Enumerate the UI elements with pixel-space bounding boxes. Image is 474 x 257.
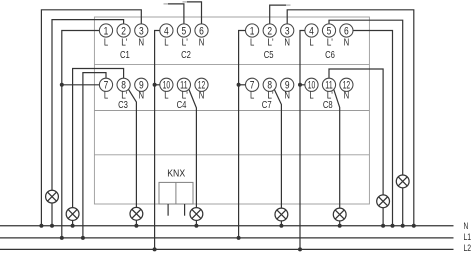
svg-text:N: N xyxy=(344,36,350,48)
lamp E3b (second load of C3) xyxy=(130,207,143,220)
wire terminal 8 output diagonal to lamp E3b xyxy=(128,88,137,208)
wire terminal 8 (L' of C3) to lamp E3a xyxy=(73,69,124,208)
terminal 6 (N of C6) pin 6 xyxy=(340,24,353,38)
wire stub terminal 2 (L' of C5) continuation xyxy=(270,5,286,24)
svg-text:L: L xyxy=(164,36,168,48)
wire lamp E7 to N bus xyxy=(280,221,282,226)
terminal 10 (L of C4) pin 10 xyxy=(160,78,173,91)
junction C5 L wire / C7 L branch xyxy=(237,83,241,87)
junction C2 L wire / C4 L branch xyxy=(153,83,157,87)
wire branch to terminal 10 (L of C8) xyxy=(300,84,305,86)
wire terminal 7 (L of C3) to L1 bus xyxy=(83,73,106,238)
svg-text:L': L' xyxy=(267,36,273,48)
terminal 5 (L' of C6) pin 5 xyxy=(322,24,335,38)
wire L1 bus to terminal 1 (L of C5) xyxy=(239,31,246,238)
lamp E7 (load of C7) xyxy=(275,208,288,221)
svg-text:C3: C3 xyxy=(118,99,128,111)
terminal 11 (L' of C4) pin 11 xyxy=(177,78,190,91)
svg-text:L: L xyxy=(309,36,313,48)
terminal 1 (L of C5) pin 1 xyxy=(246,24,259,38)
wire terminal 11 output diagonal to lamp E4 xyxy=(188,88,196,208)
KNX bus terminal block xyxy=(159,182,193,204)
junction lamp E1 / N bus xyxy=(50,224,54,228)
terminal 2 (L' of C1) pin 2 xyxy=(117,24,130,38)
terminal 12 (N of C8) pin 12 xyxy=(340,78,353,91)
junction C5 N wire / N bus xyxy=(412,224,416,228)
svg-text:L': L' xyxy=(327,36,333,48)
junction lamp E6 / N bus xyxy=(401,224,405,228)
svg-text:L': L' xyxy=(182,36,188,48)
terminal 2 (L' of C5) pin 2 xyxy=(263,24,276,38)
wire N bus to terminal 3 (N of C1) xyxy=(41,10,141,226)
device internal row line 1 xyxy=(94,64,369,66)
terminal 12 (N of C4) pin 12 xyxy=(195,78,208,91)
svg-text:C2: C2 xyxy=(181,49,191,61)
svg-text:L1: L1 xyxy=(464,232,472,242)
wire branch to terminal 10 (L of C4) xyxy=(155,84,160,86)
svg-text:N: N xyxy=(199,36,205,48)
svg-text:N: N xyxy=(199,90,205,102)
N bus wire xyxy=(0,225,454,227)
terminal 7 (L of C3) pin 7 xyxy=(99,78,112,91)
svg-text:C6: C6 xyxy=(325,49,335,61)
lamp E3a (load of C3) xyxy=(66,208,79,221)
svg-text:L: L xyxy=(250,90,254,102)
lamp E4 (load of C4) xyxy=(190,208,203,221)
wire stub terminal 5 (L' of C2) continuation xyxy=(168,4,184,24)
svg-text:L2: L2 xyxy=(464,243,472,253)
KNX bus wire + xyxy=(167,204,169,216)
junction L2 bus / C6 L wire xyxy=(298,247,302,251)
terminal 9 (N of C7) pin 9 xyxy=(281,78,294,91)
svg-text:C7: C7 xyxy=(262,99,272,111)
junction lamp E4 / N bus xyxy=(194,224,198,228)
wire terminal 5 (L' of C6) to lamp E6 xyxy=(329,20,403,175)
wire lamp E4 to N bus xyxy=(195,220,197,225)
svg-text:L: L xyxy=(104,36,108,48)
svg-text:N: N xyxy=(139,90,145,102)
L2 bus wire xyxy=(0,248,454,250)
device internal row line 2 xyxy=(94,110,369,112)
junction lamp E3b / N bus xyxy=(134,224,138,228)
junction L1 bus / C1 L wire xyxy=(60,236,64,240)
junction lamp E8b / N bus xyxy=(381,224,385,228)
junction lamp E8a / N bus xyxy=(338,224,342,228)
terminal 3 (N of C5) pin 3 xyxy=(281,24,294,38)
wire lamp E3a to N bus xyxy=(72,220,74,225)
device outline (8-channel KNX dimmer actuator) xyxy=(94,17,369,204)
wire lamp E8b to N bus xyxy=(382,208,384,226)
junction L1 bus / C5 L wire xyxy=(237,236,241,240)
junction L2 bus / C2 L wire xyxy=(153,247,157,251)
junction lamp E7 / N bus xyxy=(279,224,283,228)
lamp E1 (load of C1) xyxy=(46,190,59,203)
wire L1 bus to terminal 1 (L of C1) xyxy=(62,31,100,238)
svg-text:L': L' xyxy=(121,36,127,48)
wire L2 bus to terminal 4 (L of C6) xyxy=(300,31,305,250)
svg-text:KNX: KNX xyxy=(167,168,185,179)
KNX bus wire - xyxy=(184,204,186,216)
wire lamp E8a to N bus xyxy=(339,221,341,226)
wire terminal 8 output diagonal to lamp E7 xyxy=(274,88,282,208)
wire terminal 11 output diagonal to lamp E8a xyxy=(334,89,340,208)
terminal 8 (L' of C7) pin 8 xyxy=(263,78,276,91)
svg-text:N: N xyxy=(464,221,469,231)
wire terminal 6 (N of C6) to N bus xyxy=(353,31,393,226)
junction lamp E3a / N bus xyxy=(71,224,75,228)
wire terminal 3 (N of C5) to N bus xyxy=(287,10,414,226)
terminal 4 (L of C6) pin 4 xyxy=(305,24,318,38)
svg-text:C4: C4 xyxy=(177,99,187,111)
lamp E8b (second load of C8) xyxy=(377,195,390,208)
junction C3 L wire / L1 bus xyxy=(81,236,85,240)
svg-text:L: L xyxy=(104,90,108,102)
svg-text:L: L xyxy=(164,90,168,102)
svg-text:C8: C8 xyxy=(323,99,333,111)
svg-text:L: L xyxy=(250,36,254,48)
junction C6 L wire / C8 L branch xyxy=(298,83,302,87)
terminal 1 (L of C1) pin 1 xyxy=(99,24,112,38)
terminal 8 (L' of C3) pin 8 xyxy=(117,78,130,91)
wire terminal 11 (L' of C8) to lamp E8b xyxy=(329,69,383,195)
wire lamp E1 to N bus xyxy=(51,203,53,226)
terminal 5 (L' of C2) pin 5 xyxy=(177,24,190,38)
wire branch to terminal 7 (L of C3) xyxy=(62,84,100,86)
svg-text:L: L xyxy=(309,90,313,102)
svg-text:N: N xyxy=(284,36,290,48)
svg-text:N: N xyxy=(139,36,145,48)
lamp E8a (load of C8) xyxy=(333,208,346,221)
wire stub fade N C2 xyxy=(183,1,188,3)
terminal 10 (L of C8) pin 10 xyxy=(305,78,318,91)
svg-text:N: N xyxy=(344,90,350,102)
terminal 9 (N of C3) pin 9 xyxy=(135,78,148,91)
wire lamp E6 to N bus xyxy=(402,188,404,226)
junction N bus / C1 N wire xyxy=(39,224,43,228)
terminal 6 (N of C2) pin 6 xyxy=(195,24,208,38)
terminal 3 (N of C1) pin 3 xyxy=(135,24,148,38)
wire stub fade L' C5 xyxy=(286,4,291,6)
wire L2 bus to terminal 4 (L of C2) xyxy=(155,31,160,250)
terminal 4 (L of C2) pin 4 xyxy=(160,24,173,38)
wire branch to terminal 7 (L of C7) xyxy=(239,84,246,86)
junction C6 N wire / N bus xyxy=(391,224,395,228)
L1 bus wire xyxy=(0,237,454,239)
wire terminal 2 (L' of C1) to lamp E1 xyxy=(52,20,124,191)
svg-text:N: N xyxy=(284,90,290,102)
terminal 7 (L of C7) pin 7 xyxy=(246,78,259,91)
svg-text:C1: C1 xyxy=(120,49,130,61)
lamp E6 (load of C6) xyxy=(396,175,409,188)
junction C1 L wire / C3 L branch xyxy=(60,83,64,87)
wire lamp E3b to N bus xyxy=(135,220,137,226)
wire stub fade L' C2 xyxy=(164,3,169,5)
svg-text:C5: C5 xyxy=(264,49,274,61)
terminal 11 (L' of C8) pin 11 xyxy=(322,78,335,91)
device internal row line 3 xyxy=(94,154,369,156)
wire stub terminal 6 (N of C2) continuation xyxy=(187,2,202,24)
